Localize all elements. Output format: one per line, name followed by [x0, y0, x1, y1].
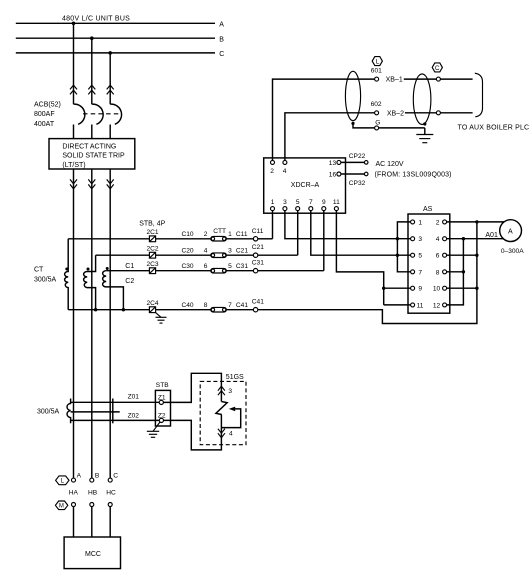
- svg-text:2: 2: [204, 231, 208, 238]
- svg-text:4: 4: [436, 236, 440, 243]
- svg-text:6: 6: [436, 253, 440, 260]
- node shield drain left: [351, 122, 354, 125]
- svg-text:300/5A: 300/5A: [34, 277, 57, 284]
- terminal XB-1 plc: [436, 77, 440, 81]
- svg-text:A: A: [219, 22, 224, 29]
- wire phase A breaker to trip box: [73, 125, 75, 139]
- node bus A tap: [72, 22, 76, 26]
- wire AS pin 2 to ammeter: [447, 221, 505, 223]
- svg-text:A: A: [77, 473, 82, 480]
- svg-text:XB–2: XB–2: [387, 111, 404, 118]
- svg-text:C11: C11: [252, 228, 264, 235]
- wire XB-2 to plc pair: [405, 112, 437, 114]
- svg-text:12: 12: [433, 302, 441, 309]
- bus A: [16, 22, 215, 24]
- svg-text:(LT/ST): (LT/ST): [62, 162, 85, 169]
- continuation bracket to PLC: [475, 73, 483, 117]
- breaker ACB(52) pole A: [74, 104, 85, 124]
- svg-text:XDCR–A: XDCR–A: [291, 182, 320, 189]
- wire C41 to AS common: [258, 222, 477, 324]
- svg-text:AC 120V: AC 120V: [376, 161, 404, 168]
- svg-text:C40: C40: [182, 302, 194, 309]
- svg-text:1: 1: [228, 231, 232, 238]
- terminal HB: [90, 503, 94, 507]
- node bus B tap: [90, 36, 94, 40]
- svg-text:C31: C31: [236, 263, 248, 270]
- ground at Z2: [153, 422, 160, 431]
- wire CTT to C21 terminal: [226, 254, 253, 256]
- wire HB to MCC: [91, 507, 93, 538]
- breaker linkage dashed: [83, 113, 120, 115]
- wire 2C1 to CTT: [156, 238, 211, 240]
- wire Z01: [71, 401, 160, 403]
- feeder chevrons phase C: [107, 179, 114, 188]
- svg-text:1: 1: [418, 219, 422, 226]
- breaker ACB(52) pole C: [110, 104, 121, 124]
- terminal A: [72, 478, 76, 482]
- wire AS pins 1-7 bracket: [397, 222, 410, 272]
- svg-text:Z01: Z01: [128, 393, 140, 400]
- terminal HA: [72, 503, 76, 507]
- svg-text:CP32: CP32: [349, 180, 366, 187]
- svg-text:SOLID STATE TRIP: SOLID STATE TRIP: [62, 153, 125, 160]
- feeder chevrons phase A: [70, 179, 77, 188]
- svg-text:6: 6: [204, 263, 208, 270]
- wire phase C feeder: [109, 169, 111, 478]
- wire CTT to C31 terminal: [226, 270, 253, 272]
- wire phase B drop to breaker: [91, 38, 93, 104]
- wire CTT to C41 terminal: [226, 309, 253, 311]
- 51GS directional arrow: [229, 407, 235, 412]
- svg-text:0–300A: 0–300A: [501, 248, 524, 255]
- wire XDCR pin 9 riser: [323, 211, 325, 271]
- wire XDCR pin 5 riser: [297, 211, 299, 256]
- wire HC to MCC: [109, 507, 111, 538]
- wire 2C2 to CTT: [156, 254, 211, 256]
- zero sequence CT window right bar: [112, 399, 114, 424]
- svg-text:STB, 4P: STB, 4P: [139, 220, 165, 227]
- wire Z1 to 51GS: [163, 373, 221, 402]
- svg-text:11: 11: [333, 199, 340, 206]
- drawout chevrons phase C: [107, 85, 114, 94]
- XDCR pin 2: [271, 160, 275, 164]
- svg-text:Z02: Z02: [128, 413, 140, 420]
- svg-text:M: M: [59, 503, 64, 509]
- wire CT row 3: [106, 270, 149, 272]
- 51GS pin 4 chevrons: [218, 429, 225, 438]
- wire XDCR pin 16 to CP32: [341, 173, 365, 175]
- svg-text:3: 3: [283, 199, 287, 206]
- svg-text:C11: C11: [236, 231, 248, 238]
- wire XDCR pin 3 to AS pin 3: [285, 211, 411, 239]
- svg-text:9: 9: [322, 199, 326, 206]
- breaker ACB(52) pole B: [92, 104, 103, 124]
- wire 2C3 to CTT: [156, 270, 211, 272]
- wire C21 to XDCR pin 5: [258, 254, 298, 256]
- wire C11 to XDCR pin 1: [258, 238, 273, 240]
- wire phase A feeder: [73, 169, 75, 478]
- svg-text:800AF: 800AF: [34, 111, 55, 118]
- svg-text:13: 13: [329, 160, 337, 167]
- wire AS pin 12 to pin 4 riser: [447, 239, 464, 305]
- svg-text:16: 16: [329, 172, 337, 179]
- svg-text:4: 4: [229, 431, 233, 438]
- node shield drain right: [423, 122, 426, 125]
- node pin4 junction: [462, 237, 465, 240]
- MCC box: [64, 537, 120, 569]
- drawout chevrons phase B: [88, 85, 95, 94]
- svg-text:HB: HB: [88, 489, 98, 496]
- wire XDCR pin 7 to AS pin 5: [311, 211, 411, 256]
- drawout chevrons phase A: [70, 85, 77, 94]
- node common B: [94, 308, 97, 311]
- wire AS pin 6 stub: [447, 254, 477, 256]
- ground at 2C4: [156, 313, 161, 318]
- svg-text:1: 1: [271, 199, 275, 206]
- svg-text:CTT: CTT: [213, 228, 226, 235]
- svg-text:MCC: MCC: [85, 551, 101, 558]
- wire CT row 1: [68, 238, 149, 240]
- svg-text:C: C: [113, 473, 118, 480]
- wire phase A drop to breaker: [73, 23, 75, 104]
- svg-text:300/5A: 300/5A: [37, 408, 60, 415]
- svg-text:480V L/C UNIT BUS: 480V L/C UNIT BUS: [62, 15, 130, 22]
- svg-text:AS: AS: [423, 206, 433, 213]
- svg-text:7: 7: [228, 302, 232, 309]
- svg-text:C1: C1: [125, 263, 134, 270]
- tag hexagon C: [432, 63, 442, 72]
- svg-text:C21: C21: [252, 244, 264, 251]
- wire 2C4 to CTT: [156, 309, 211, 311]
- svg-text:9: 9: [418, 286, 422, 293]
- svg-text:DIRECT ACTING: DIRECT ACTING: [62, 143, 116, 150]
- node pin10 junction: [475, 287, 478, 290]
- wire AS pin 8 stub: [447, 271, 464, 273]
- wire XDCR pin 11 to AS pins 9-11: [336, 211, 383, 305]
- wire XB-1 stub: [440, 78, 472, 80]
- svg-text:B: B: [219, 36, 224, 43]
- svg-text:ACB(52): ACB(52): [34, 101, 61, 108]
- node AS pin 9 junction: [382, 287, 385, 290]
- zero sequence CT center stub: [71, 411, 120, 413]
- wire phase C drop to breaker: [109, 53, 111, 104]
- svg-text:STB: STB: [156, 382, 169, 389]
- AS pin 9: [411, 286, 415, 290]
- svg-text:2C1: 2C1: [147, 229, 159, 236]
- svg-text:C41: C41: [252, 299, 264, 306]
- svg-text:2C3: 2C3: [147, 261, 159, 268]
- svg-text:CP22: CP22: [349, 153, 366, 160]
- wire to AS pin 9: [384, 287, 411, 289]
- svg-text:HA: HA: [69, 489, 79, 496]
- wire XDCR pin 1 riser: [272, 211, 274, 239]
- wire XB-2 stub: [440, 112, 472, 114]
- terminal C: [108, 478, 112, 482]
- node pin6 junction: [475, 254, 478, 257]
- node bracket row3: [396, 254, 399, 257]
- svg-text:B: B: [95, 473, 100, 480]
- tag hexagon L: [56, 476, 69, 485]
- wire phase C breaker to trip box: [109, 125, 111, 139]
- svg-text:L: L: [376, 59, 380, 66]
- AS pin 7: [411, 270, 415, 274]
- svg-text:5: 5: [418, 253, 422, 260]
- svg-text:400AT: 400AT: [34, 121, 55, 128]
- relay 51GS dashed box: [200, 381, 246, 444]
- svg-text:5: 5: [296, 199, 300, 206]
- wire CT common row: [68, 309, 149, 311]
- bus B: [16, 37, 215, 39]
- bus C: [16, 52, 215, 54]
- CT phase C secondary: [103, 271, 124, 310]
- trip unit box DIRECT ACTING SOLID STATE TRIP (LT/ST): [49, 139, 135, 169]
- wire CT row 2: [96, 254, 150, 256]
- svg-text:A: A: [508, 228, 513, 235]
- svg-text:11: 11: [417, 302, 424, 309]
- wire CTT to C11 terminal: [226, 238, 253, 240]
- 51GS pin 3 chevrons: [218, 386, 225, 395]
- CT phase C polarity dot: [106, 267, 109, 270]
- svg-text:(FROM: 13SL009Q003): (FROM: 13SL009Q003): [375, 171, 452, 178]
- svg-text:TO AUX BOILER PLC: TO AUX BOILER PLC: [458, 125, 530, 132]
- tag hexagon L: [372, 57, 382, 66]
- shield ellipse left pair: [345, 71, 360, 120]
- wire Z2 to 51GS: [164, 415, 222, 450]
- svg-text:C10: C10: [182, 231, 194, 238]
- wire phase B breaker to trip box: [91, 125, 93, 139]
- wire G to ground: [379, 127, 425, 129]
- AS pin 5: [411, 253, 415, 257]
- svg-text:4: 4: [204, 247, 208, 254]
- wire XB-1 to plc pair: [404, 78, 437, 80]
- 51GS element zigzag: [216, 402, 227, 415]
- svg-text:3: 3: [228, 388, 232, 395]
- terminal B: [90, 478, 94, 482]
- wire XDCR pin 2 to XB-1: [273, 79, 375, 160]
- node bus C tap: [108, 51, 112, 55]
- svg-text:7: 7: [309, 199, 313, 206]
- svg-text:CT: CT: [34, 267, 44, 274]
- CT phase A secondary: [65, 239, 69, 310]
- wire Z02: [71, 419, 160, 421]
- CT phase B polarity dot: [87, 268, 90, 271]
- node pin2 junction: [475, 220, 478, 223]
- svg-text:2: 2: [436, 219, 440, 226]
- ground shield: [424, 128, 426, 135]
- node pin8 junction: [462, 270, 465, 273]
- svg-text:5: 5: [228, 263, 232, 270]
- svg-text:HC: HC: [106, 489, 116, 496]
- tag hexagon M: [55, 501, 67, 510]
- terminal XB-2 plc: [436, 111, 440, 115]
- svg-text:3: 3: [418, 236, 422, 243]
- svg-text:C2: C2: [125, 278, 134, 285]
- node common C: [122, 308, 125, 311]
- svg-text:2C2: 2C2: [147, 245, 159, 252]
- svg-text:8: 8: [436, 269, 440, 276]
- svg-text:10: 10: [433, 286, 441, 293]
- XDCR pin 4: [283, 160, 287, 164]
- svg-text:C20: C20: [182, 247, 194, 254]
- svg-text:602: 602: [371, 101, 382, 108]
- svg-text:C21: C21: [236, 247, 248, 254]
- zero sequence CT window left bar with coil: [67, 399, 71, 424]
- svg-text:2C4: 2C4: [147, 300, 159, 307]
- wire C31 to XDCR pin 9: [258, 270, 324, 272]
- svg-text:XB–1: XB–1: [386, 77, 403, 84]
- svg-text:C: C: [219, 51, 224, 58]
- svg-text:A01: A01: [485, 232, 498, 239]
- svg-text:C: C: [435, 65, 440, 72]
- svg-text:7: 7: [418, 269, 422, 276]
- wire to AS pin 11: [384, 304, 411, 306]
- CT phase B secondary: [84, 255, 96, 310]
- transducer XDCR-A box: [264, 158, 346, 213]
- svg-text:601: 601: [371, 68, 382, 75]
- AS pin 1: [411, 220, 415, 224]
- wire AS pin 4 to ammeter: [447, 238, 503, 240]
- AS pin 11: [411, 303, 415, 307]
- svg-text:8: 8: [204, 302, 208, 309]
- svg-text:3: 3: [228, 247, 232, 254]
- svg-text:C41: C41: [236, 302, 248, 309]
- shield ellipse right pair: [413, 74, 431, 125]
- svg-text:C30: C30: [182, 263, 194, 270]
- svg-text:4: 4: [283, 168, 287, 175]
- wire XDCR pin 13 to CP22: [341, 161, 365, 163]
- wire AS pin 10 stub: [447, 287, 477, 289]
- feeder chevrons phase B: [88, 179, 95, 188]
- AS pin 3: [411, 237, 415, 241]
- wire XDCR pin 4 to XB-2: [285, 113, 375, 161]
- node bracket row2: [396, 237, 399, 240]
- svg-text:51GS: 51GS: [226, 374, 244, 381]
- wire phase B feeder: [91, 169, 93, 478]
- wire HA to MCC: [73, 507, 75, 538]
- terminal HC: [108, 503, 112, 507]
- svg-text:2: 2: [270, 168, 274, 175]
- svg-text:C31: C31: [252, 260, 264, 267]
- CT phase A polarity dot: [65, 268, 68, 271]
